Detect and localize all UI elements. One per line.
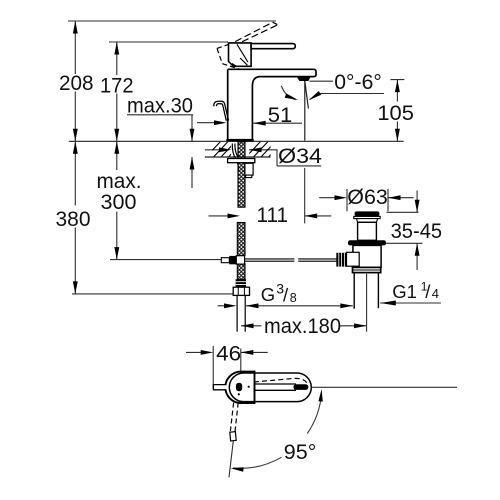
neck (358, 222, 377, 240)
hex nut (233, 287, 249, 295)
aerator (297, 78, 310, 82)
svg-text:46: 46 (216, 342, 241, 366)
105 arrows (395, 80, 400, 93)
dim line 208/380 (74, 21, 76, 294)
Ø34 arrows (219, 147, 232, 152)
drain axis line (366, 274, 368, 332)
handle base (top view, bold) (225, 372, 254, 403)
drain body (353, 245, 381, 267)
G1 1/4 label (392, 280, 439, 303)
svg-text:max.30: max.30 (127, 94, 193, 118)
380 arrows (73, 141, 78, 154)
stream line vertical (304, 81, 306, 141)
lever pill (top view) (229, 373, 311, 402)
deck bottom line (205, 156, 271, 158)
rod joint block (white) (236, 256, 244, 264)
leader 0-6 a (310, 80, 334, 82)
max30 arrows (190, 129, 195, 142)
line spout outlet axis below deck (304, 168, 306, 223)
side fitting (245, 163, 253, 175)
lever bar (251, 44, 295, 49)
svg-text:G: G (261, 284, 275, 305)
svg-text:380: 380 (56, 207, 91, 231)
111 arrows (228, 213, 241, 218)
deck hatch right (246, 141, 284, 157)
dim 51 (197, 122, 302, 125)
lever dark tip (293, 384, 308, 390)
deck top line (69, 140, 404, 142)
taper (356, 219, 377, 223)
arc arrow curve 0-6 (281, 86, 295, 100)
collar (347, 252, 360, 266)
dot right of oval (248, 386, 250, 388)
G 3/8 label (261, 281, 297, 306)
dim 111 (209, 215, 332, 217)
51 arrows (214, 120, 227, 125)
handle base (229, 43, 252, 66)
supply level line (380) (72, 293, 233, 295)
knurled knob (336, 253, 346, 267)
leader 0-6 b (310, 94, 384, 100)
G3/8 arrows (224, 303, 237, 308)
svg-text:51: 51 (268, 103, 293, 127)
hose end fitting (236, 279, 246, 287)
handle base interior lines (232, 44, 248, 66)
35-45 arrows (415, 200, 420, 213)
deck hatch left (206, 141, 244, 157)
dot below oval (238, 393, 240, 395)
svg-text:/: / (283, 285, 289, 306)
rod clevis (white) (221, 258, 229, 263)
hose end level line (max.300) (110, 259, 222, 261)
max300 arrows (114, 141, 119, 154)
svg-text:Ø34: Ø34 (278, 144, 322, 168)
cap lip (354, 216, 380, 218)
46 extension lines (213, 346, 241, 389)
cartridge dark oval (236, 383, 242, 392)
svg-text:105: 105 (377, 101, 414, 125)
svg-text:/: / (425, 281, 431, 302)
dim Ø34 (205, 150, 321, 166)
dim max.180 (241, 325, 367, 327)
svg-text:208: 208 (59, 71, 94, 95)
46 dim shafts (186, 351, 268, 353)
mounting washer (228, 159, 255, 163)
208 arrows (73, 21, 78, 34)
dim G1 1/4 (380, 302, 441, 304)
spout body outline (228, 69, 316, 139)
dim G3/8 (218, 305, 353, 307)
coupling (353, 267, 381, 272)
hose segment in hole (237, 142, 245, 280)
dim max.30 (127, 115, 193, 188)
svg-text:Ø63: Ø63 (347, 185, 388, 209)
svg-text:4: 4 (432, 286, 439, 301)
rotated tab (230, 432, 236, 441)
radius line (229, 441, 233, 477)
top reference line (lever raised level) (68, 20, 276, 22)
arc arrows (318, 389, 322, 402)
G1 1/4 arrow (380, 301, 396, 306)
dim line 172/max300 (116, 42, 118, 260)
base plate (226, 139, 253, 142)
dim 35-45 (386, 191, 423, 271)
reference line 172 level (109, 41, 228, 43)
95 arc (233, 394, 322, 469)
svg-text:300: 300 (101, 190, 137, 214)
drain cap (355, 211, 380, 216)
dashed rotated lever (230, 403, 238, 432)
Ø63 arrows (335, 195, 348, 200)
dim 105 (390, 80, 404, 142)
svg-text:35-45: 35-45 (391, 219, 443, 243)
curved hose line in hole (232, 144, 235, 159)
svg-text:G1: G1 (392, 281, 417, 302)
svg-text:8: 8 (290, 291, 297, 305)
rod connector at faucet (229, 256, 236, 264)
horizontal line right (311, 386, 457, 388)
svg-text:111: 111 (257, 203, 289, 227)
0-6 leader arrow (309, 91, 322, 100)
172 arrows (114, 42, 119, 55)
dashed handle base raised (217, 42, 240, 69)
dashed lever raised (235, 22, 277, 51)
max180 arrows (241, 323, 254, 328)
46 arrows (201, 350, 214, 355)
washer (348, 240, 386, 245)
tab (213, 385, 226, 390)
stream line 6 deg (305, 81, 309, 109)
tail pipe (354, 273, 378, 309)
clip hook (214, 101, 229, 121)
svg-text:max.180: max.180 (264, 314, 341, 338)
svg-text:0°-6°: 0°-6° (334, 70, 382, 94)
dim Ø63 (319, 189, 413, 211)
hidden lever dashed (254, 378, 307, 383)
0-6 arc arrow (285, 94, 299, 101)
svg-text:95°: 95° (284, 440, 317, 464)
lever shaft lines (255, 384, 297, 390)
supply pipe (237, 295, 245, 331)
